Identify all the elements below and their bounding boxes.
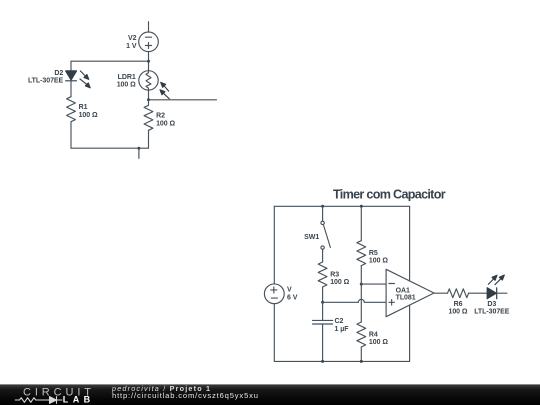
wire hop over R5 branch <box>358 299 364 302</box>
wire right rail of timer circuit <box>409 206 411 361</box>
wire bottom rail of left circuit <box>71 147 149 149</box>
wire horizontal to the right <box>149 99 217 101</box>
svg-text:6 V: 6 V <box>287 294 298 301</box>
footer bar <box>0 384 540 405</box>
wire R5 to node <box>360 266 362 285</box>
switch SW1 <box>321 221 331 249</box>
logo diode symbol <box>42 397 62 404</box>
svg-text:R2: R2 <box>156 113 165 120</box>
svg-text:100 Ω: 100 Ω <box>369 339 388 346</box>
junction node on bottom rail <box>137 147 140 150</box>
svg-text:SW1: SW1 <box>304 234 319 241</box>
resistor R6 <box>448 289 469 298</box>
wire SW1 to R3 <box>322 249 324 262</box>
svg-text:LTL-307EE: LTL-307EE <box>474 309 510 316</box>
wire node down to R4 <box>360 284 362 322</box>
D3 emission arrow 2 <box>495 275 504 285</box>
op-amp OA1 <box>386 269 434 316</box>
svg-text:D3: D3 <box>487 301 496 308</box>
svg-text:R5: R5 <box>369 250 378 257</box>
capacitor C2 <box>313 320 333 324</box>
D3 emission arrow 1 <box>488 275 497 284</box>
svg-text:100 Ω: 100 Ω <box>156 120 175 127</box>
wire bottom rail of timer circuit <box>274 360 409 362</box>
svg-text:LDR1: LDR1 <box>118 74 136 81</box>
wire left rail upper <box>273 206 275 284</box>
svg-text:R3: R3 <box>330 271 339 278</box>
svg-text:R6: R6 <box>454 301 463 308</box>
voltage source V2 <box>139 32 159 52</box>
wire node to hop <box>323 301 359 303</box>
LDR1 light arrow 2 <box>160 90 169 99</box>
svg-text:V2: V2 <box>128 35 137 42</box>
wire V2 bottom to LDR1 top <box>148 52 150 71</box>
junction node V2/top-left branch <box>147 60 150 63</box>
svg-text:100 Ω: 100 Ω <box>79 112 98 119</box>
wire op-amp output to R6 <box>434 292 448 294</box>
wire stub below bottom rail <box>138 148 140 158</box>
svg-text:V: V <box>287 287 292 294</box>
resistor R4 <box>357 322 366 347</box>
wire R6 to D3 <box>469 292 488 294</box>
junction node bottom rail / C2 branch <box>321 360 324 363</box>
junction node R3/C2/op-amp plus <box>321 301 324 304</box>
wire left rail lower <box>273 304 275 362</box>
wire hop to op-amp plus input <box>364 301 386 303</box>
wire top rail to R5 <box>360 206 362 240</box>
svg-text:C2: C2 <box>335 318 344 325</box>
D2 emission arrow 1 <box>80 71 89 80</box>
wire R1 to bottom rail <box>70 122 72 149</box>
wire node to op-amp minus input <box>361 283 386 285</box>
svg-text:TL081: TL081 <box>396 295 416 302</box>
junction node top rail / switch branch <box>321 205 324 208</box>
junction node LDR1/R2 <box>147 98 150 101</box>
junction node bottom rail / R4 branch <box>360 360 363 363</box>
D2 emission arrow 2 <box>80 79 90 88</box>
wire top rail of timer circuit <box>274 205 409 207</box>
svg-text:LAB: LAB <box>63 395 95 405</box>
wire R2 to bottom rail <box>148 130 150 148</box>
wire top horizontal to left branch <box>71 60 149 62</box>
logo resistor zigzag <box>15 398 42 403</box>
svg-text:LTL-307EE: LTL-307EE <box>28 78 64 85</box>
svg-text:1 V: 1 V <box>126 43 137 50</box>
svg-text:100 Ω: 100 Ω <box>330 279 349 286</box>
wire top rail to SW1 <box>322 206 324 221</box>
svg-text:1 µF: 1 µF <box>335 326 350 333</box>
photoresistor LDR1 <box>139 71 158 90</box>
wire stub above V2 <box>148 22 150 32</box>
voltage source V <box>264 284 284 304</box>
resistor R2 <box>144 105 153 130</box>
LDR1 light arrow 1 <box>161 82 169 91</box>
svg-text:100 Ω: 100 Ω <box>117 82 136 89</box>
wire C2 to bottom rail <box>322 324 324 361</box>
svg-text:http://circuitlab.com/cvszt6q5: http://circuitlab.com/cvszt6q5yx5xu <box>112 391 258 400</box>
resistor R1 <box>67 97 76 122</box>
wire D2 to R1 <box>70 81 72 97</box>
svg-text:R1: R1 <box>79 104 88 111</box>
wire R3 to node <box>322 287 324 302</box>
LED D2 <box>66 71 77 81</box>
wire node to C2 <box>322 302 324 320</box>
wire node to R2 <box>148 100 150 106</box>
wire R4 to bottom rail <box>360 347 362 361</box>
wire D3 cathode out <box>497 292 507 294</box>
svg-text:Timer com Capacitor: Timer com Capacitor <box>333 187 446 201</box>
junction node R5/R4/op-amp minus <box>360 283 363 286</box>
svg-text:OA1: OA1 <box>396 287 410 294</box>
svg-text:100 Ω: 100 Ω <box>369 258 388 265</box>
resistor R3 <box>318 262 327 287</box>
resistor R5 <box>357 241 366 266</box>
wire LDR1 to node <box>148 90 150 100</box>
svg-text:R4: R4 <box>369 331 378 338</box>
wire left branch down to D2 <box>70 61 72 71</box>
svg-text:100 Ω: 100 Ω <box>449 309 468 316</box>
junction node top rail / R5 branch <box>360 205 363 208</box>
LED D3 <box>487 288 497 299</box>
svg-text:D2: D2 <box>54 70 63 77</box>
